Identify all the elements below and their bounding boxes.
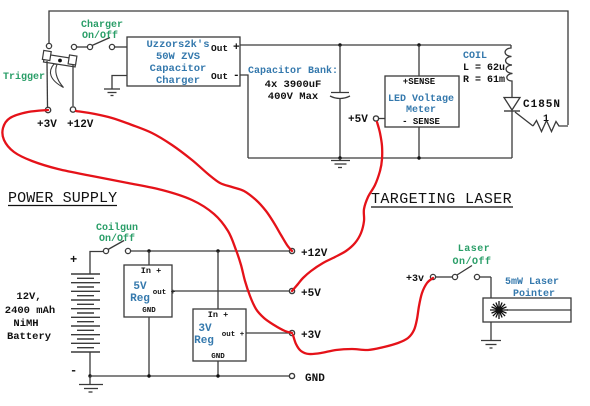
wire down to 3V reg <box>217 251 219 309</box>
svg-text:+3v: +3v <box>406 274 424 285</box>
svg-text:4x 3900uF: 4x 3900uF <box>265 79 322 91</box>
resistor R1 gate <box>533 121 568 132</box>
box U3 5V regulator <box>124 265 172 317</box>
node GND <box>289 373 294 378</box>
svg-text:+12V: +12V <box>301 248 328 260</box>
wire bottom GND rail <box>90 375 290 377</box>
svg-text:2400 mAh: 2400 mAh <box>5 305 55 317</box>
junction cap to rail <box>338 43 341 46</box>
svg-text:Trigger: Trigger <box>3 71 45 83</box>
switch trigger (microswitch) <box>42 50 77 67</box>
gate lead <box>515 112 533 126</box>
wire bottom rail of capacitor bank <box>248 157 512 159</box>
svg-text:5V: 5V <box>133 281 147 293</box>
box U4 3V regulator <box>193 309 246 361</box>
svg-text:+5V: +5V <box>348 114 368 126</box>
svg-text:GND: GND <box>211 353 225 361</box>
laser diode starburst <box>490 301 508 319</box>
svg-text:Battery: Battery <box>7 331 52 343</box>
switch Charger On/Off <box>71 38 127 50</box>
svg-text:+: + <box>233 42 240 54</box>
capacitor C1 electrolytic <box>330 45 350 158</box>
svg-text:L = 62u: L = 62u <box>463 63 505 74</box>
wire Out+ rail to coil <box>240 44 511 46</box>
box laser pointer <box>483 298 571 322</box>
svg-text:NiMH: NiMH <box>13 318 38 330</box>
svg-text:Capacitor: Capacitor <box>150 63 207 75</box>
wire top rail (trigger to SCR gate) <box>49 11 568 125</box>
switch Laser On/Off <box>430 266 491 280</box>
svg-text:Out: Out <box>211 43 228 54</box>
svg-text:Charger: Charger <box>81 19 123 31</box>
label battery <box>5 291 55 343</box>
label Laser On/Off <box>452 244 491 268</box>
label 5mW Laser Pointer <box>505 277 559 300</box>
wire down to 5V reg <box>148 251 150 265</box>
red wire trigger +3V to +3V node <box>2 110 292 333</box>
battery plates <box>71 274 100 352</box>
box U2 LED voltage meter <box>385 76 459 127</box>
svg-text:Reg: Reg <box>194 335 214 347</box>
svg-text:+3V: +3V <box>301 330 321 342</box>
svg-text:+5V: +5V <box>301 288 321 300</box>
label Coilgun On/Off <box>96 222 138 245</box>
svg-text:Uzzors2k's: Uzzors2k's <box>146 39 209 51</box>
ground charger input <box>104 76 127 96</box>
red wire trigger +12V to +12V node <box>76 111 292 251</box>
svg-text:+12V: +12V <box>67 119 94 131</box>
svg-text:Charger: Charger <box>156 75 200 87</box>
thyristor Q1 C185N <box>504 98 520 111</box>
node +5V <box>289 288 294 293</box>
wire 5V out to +5V node <box>172 290 290 292</box>
wire 5V reg gnd down <box>148 317 150 376</box>
trigger pivot dot <box>58 59 62 63</box>
wire 3V reg gnd down <box>217 361 219 376</box>
svg-text:-: - <box>70 364 77 378</box>
trigger lever blade <box>50 64 63 88</box>
svg-text:LED Voltage: LED Voltage <box>388 93 454 105</box>
svg-text:out +: out + <box>222 331 245 339</box>
svg-text:out +: out + <box>153 289 176 297</box>
svg-text:- SENSE: - SENSE <box>402 117 440 127</box>
svg-text:Meter: Meter <box>406 105 436 116</box>
svg-text:GND: GND <box>305 373 325 385</box>
svg-text:Capacitor Bank:: Capacitor Bank: <box>248 65 338 77</box>
svg-text:1: 1 <box>543 114 549 125</box>
node +3V trigger terminal <box>45 107 50 112</box>
svg-text:GND: GND <box>142 307 156 315</box>
box U1 capacitor charger <box>127 37 240 86</box>
red wire meter +5V to +5V node <box>292 122 382 291</box>
wire Out- down to bottom rail <box>240 75 248 158</box>
junction 3V reg feed <box>216 249 219 252</box>
svg-text:12V,: 12V, <box>16 291 41 303</box>
svg-text:+SENSE: +SENSE <box>403 77 436 87</box>
red wire +3V node to laser switch <box>293 278 433 354</box>
ground battery <box>88 374 91 377</box>
junction meter to bottom rail <box>417 156 420 159</box>
svg-text:COIL: COIL <box>463 51 487 62</box>
svg-text:POWER SUPPLY: POWER SUPPLY <box>8 190 117 207</box>
ground capacitor bank <box>338 156 341 159</box>
ground laser <box>481 322 501 348</box>
svg-text:-: - <box>233 70 240 82</box>
wire meter +sense <box>418 45 420 76</box>
svg-text:Laser: Laser <box>458 244 491 255</box>
wire meter -sense down <box>418 127 420 158</box>
svg-text:Out: Out <box>211 71 228 82</box>
svg-text:On/Off: On/Off <box>99 233 135 245</box>
wire 3V out to +3V node <box>246 332 290 334</box>
svg-text:+3V: +3V <box>37 119 57 131</box>
svg-text:400V Max: 400V Max <box>268 91 319 103</box>
svg-text:5mW Laser: 5mW Laser <box>505 277 559 288</box>
label Charger On/Off <box>81 19 123 42</box>
node +12V trigger terminal <box>70 107 75 112</box>
node trigger top terminal <box>46 43 51 48</box>
wire laser feed down <box>490 277 492 298</box>
node +12V <box>289 248 294 253</box>
svg-text:Coilgun: Coilgun <box>96 222 138 234</box>
svg-text:50W ZVS: 50W ZVS <box>156 51 200 63</box>
svg-text:In +: In + <box>141 266 161 276</box>
svg-text:3V: 3V <box>198 323 212 335</box>
svg-text:Reg: Reg <box>130 293 150 305</box>
wire trigger terminals down <box>47 61 73 107</box>
junction 5V reg feed <box>147 249 150 252</box>
svg-text:On/Off: On/Off <box>82 30 118 42</box>
svg-text:R = 61m: R = 61m <box>463 75 505 86</box>
inductor L1 coil <box>505 45 512 98</box>
junction meter to rail <box>417 43 420 46</box>
node +3V <box>289 330 294 335</box>
svg-text:+: + <box>70 253 77 267</box>
switch Coilgun On/Off <box>103 241 290 254</box>
svg-text:TARGETING LASER: TARGETING LASER <box>371 191 512 208</box>
svg-text:C185N: C185N <box>523 99 561 111</box>
svg-text:In +: In + <box>208 310 228 320</box>
